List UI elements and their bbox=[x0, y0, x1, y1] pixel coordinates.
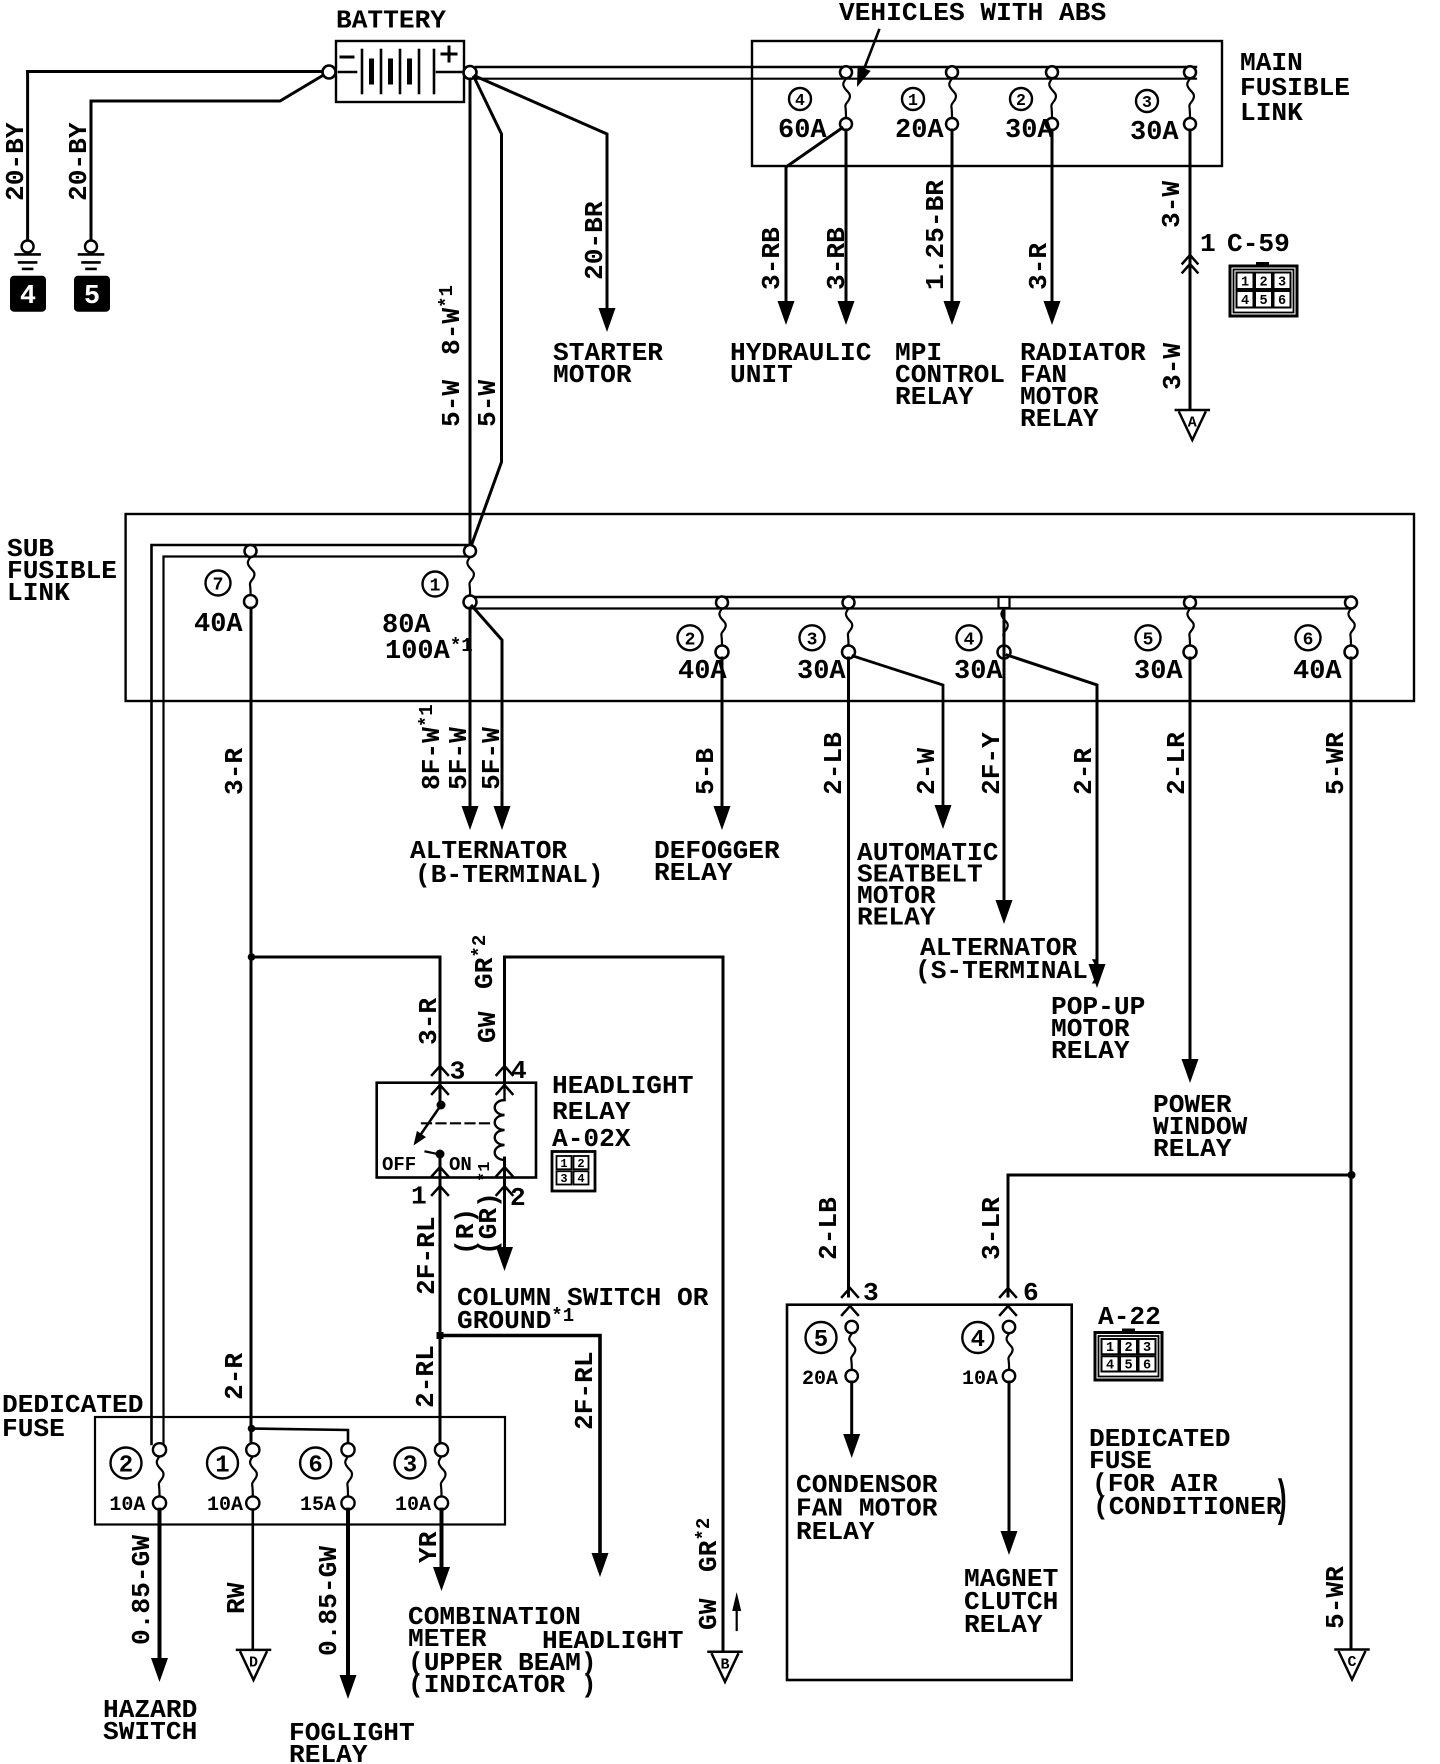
svg-text:6: 6 bbox=[1278, 294, 1286, 309]
svg-text:2: 2 bbox=[685, 630, 696, 650]
svg-text:RELAY: RELAY bbox=[654, 858, 733, 888]
svg-text:3: 3 bbox=[863, 1278, 879, 1308]
svg-text:40A: 40A bbox=[194, 610, 243, 640]
svg-text:3: 3 bbox=[403, 1453, 417, 1480]
svg-text:3: 3 bbox=[450, 1057, 466, 1087]
svg-text:(GR): (GR) bbox=[474, 1192, 504, 1255]
svg-text:2F-RL: 2F-RL bbox=[412, 1216, 442, 1295]
svg-text:2: 2 bbox=[1259, 275, 1267, 290]
svg-text:B: B bbox=[720, 1656, 729, 1673]
svg-text:5-W: 5-W bbox=[437, 380, 467, 427]
svg-text:4: 4 bbox=[1106, 1358, 1114, 1373]
svg-text:C-59: C-59 bbox=[1227, 229, 1290, 259]
svg-text:3-R: 3-R bbox=[220, 748, 250, 795]
svg-text:3-RB: 3-RB bbox=[757, 227, 787, 290]
svg-text:2: 2 bbox=[510, 1183, 526, 1213]
svg-text:10A: 10A bbox=[962, 1368, 998, 1391]
svg-text:10A: 10A bbox=[109, 1494, 145, 1517]
svg-text:4: 4 bbox=[20, 282, 36, 312]
svg-text:30A: 30A bbox=[954, 657, 1003, 687]
svg-text:20A: 20A bbox=[895, 116, 944, 146]
svg-text:RELAY: RELAY bbox=[1051, 1036, 1130, 1066]
svg-text:A-22: A-22 bbox=[1098, 1302, 1161, 1332]
svg-text:4: 4 bbox=[971, 1327, 985, 1354]
svg-text:5F-W: 5F-W bbox=[477, 727, 507, 790]
svg-text:RELAY: RELAY bbox=[1153, 1134, 1232, 1164]
svg-text:VEHICLES WITH ABS: VEHICLES WITH ABS bbox=[839, 0, 1106, 28]
svg-text:2: 2 bbox=[577, 1157, 584, 1171]
svg-text:RELAY: RELAY bbox=[552, 1097, 631, 1127]
svg-text:BATTERY: BATTERY bbox=[336, 6, 446, 36]
svg-text:RW: RW bbox=[222, 1582, 252, 1614]
svg-text:GW: GW bbox=[694, 1598, 724, 1630]
svg-text:4: 4 bbox=[1241, 294, 1249, 309]
svg-text:3: 3 bbox=[560, 1172, 567, 1186]
svg-text:6: 6 bbox=[1143, 1358, 1151, 1373]
svg-text:4: 4 bbox=[795, 91, 805, 110]
svg-text:2-LB: 2-LB bbox=[819, 732, 849, 795]
svg-text:4: 4 bbox=[577, 1172, 584, 1186]
svg-text:C: C bbox=[1347, 1654, 1356, 1671]
svg-text:1.25-BR: 1.25-BR bbox=[921, 180, 951, 290]
svg-text:10A: 10A bbox=[395, 1494, 431, 1517]
svg-text:A-02X: A-02X bbox=[552, 1124, 631, 1154]
svg-text:20-BR: 20-BR bbox=[580, 201, 610, 280]
svg-text:15A: 15A bbox=[300, 1494, 336, 1517]
svg-text:MOTOR: MOTOR bbox=[553, 360, 632, 390]
svg-text:2F-Y: 2F-Y bbox=[977, 732, 1007, 795]
svg-text:3-LR: 3-LR bbox=[977, 1197, 1007, 1260]
svg-text:1: 1 bbox=[1241, 275, 1249, 290]
svg-text:3-R: 3-R bbox=[1024, 243, 1054, 290]
svg-text:2-W: 2-W bbox=[912, 748, 942, 795]
svg-text:LINK: LINK bbox=[7, 578, 70, 608]
svg-text:5: 5 bbox=[1143, 630, 1154, 650]
svg-text:30A: 30A bbox=[1005, 116, 1054, 146]
svg-text:SWITCH: SWITCH bbox=[103, 1717, 197, 1747]
svg-text:1: 1 bbox=[215, 1453, 229, 1480]
svg-text:RELAY: RELAY bbox=[964, 1610, 1043, 1640]
svg-text:RELAY: RELAY bbox=[857, 903, 936, 933]
svg-text:0.85-GW: 0.85-GW bbox=[127, 1535, 157, 1645]
svg-text:2: 2 bbox=[1016, 91, 1026, 110]
svg-text:5-WR: 5-WR bbox=[1321, 732, 1351, 795]
svg-text:1: 1 bbox=[560, 1157, 567, 1171]
svg-text:3-W: 3-W bbox=[1158, 343, 1188, 390]
svg-text:20A: 20A bbox=[802, 1368, 838, 1391]
svg-text:40A: 40A bbox=[1293, 657, 1342, 687]
svg-text:6: 6 bbox=[1023, 1278, 1039, 1308]
svg-text:): ) bbox=[1274, 1473, 1290, 1529]
svg-text:2-RL: 2-RL bbox=[411, 1345, 441, 1408]
svg-text:OFF: OFF bbox=[382, 1154, 416, 1176]
svg-text:30A: 30A bbox=[1134, 657, 1183, 687]
svg-text:2F-RL: 2F-RL bbox=[570, 1351, 600, 1430]
svg-text:30A: 30A bbox=[1130, 118, 1179, 148]
svg-text:5: 5 bbox=[1124, 1358, 1132, 1373]
svg-text:20-BY: 20-BY bbox=[64, 122, 94, 201]
svg-text:7: 7 bbox=[213, 575, 224, 595]
svg-text:RELAY: RELAY bbox=[289, 1740, 368, 1764]
svg-text:5F-W: 5F-W bbox=[444, 727, 474, 790]
svg-text:GW: GW bbox=[473, 1011, 503, 1043]
svg-text:4: 4 bbox=[964, 630, 975, 650]
svg-text:A: A bbox=[1188, 415, 1197, 432]
svg-text:2: 2 bbox=[119, 1453, 133, 1480]
svg-text:(S-TERMINAL): (S-TERMINAL) bbox=[915, 956, 1104, 986]
svg-text:5: 5 bbox=[1259, 294, 1267, 309]
svg-text:6: 6 bbox=[1303, 630, 1314, 650]
svg-text:2-LR: 2-LR bbox=[1162, 732, 1192, 795]
svg-text:40A: 40A bbox=[678, 657, 727, 687]
svg-text:5-W: 5-W bbox=[473, 380, 503, 427]
svg-text:1: 1 bbox=[1200, 229, 1216, 259]
svg-text:(B-TERMINAL): (B-TERMINAL) bbox=[415, 860, 604, 890]
svg-text:RELAY: RELAY bbox=[895, 382, 974, 412]
svg-text:1: 1 bbox=[908, 91, 918, 110]
svg-text:RELAY: RELAY bbox=[1020, 404, 1099, 434]
svg-text:(CONDITIONER: (CONDITIONER bbox=[1093, 1492, 1282, 1522]
svg-text:2-R: 2-R bbox=[220, 1353, 250, 1400]
svg-text:3: 3 bbox=[1142, 93, 1152, 112]
svg-text:ON: ON bbox=[449, 1154, 472, 1176]
svg-text:1: 1 bbox=[1106, 1341, 1114, 1356]
svg-text:FUSE: FUSE bbox=[2, 1414, 65, 1444]
svg-text:30A: 30A bbox=[797, 657, 846, 687]
svg-text:1: 1 bbox=[411, 1182, 427, 1212]
svg-text:3-W: 3-W bbox=[1157, 181, 1187, 228]
svg-text:3-RB: 3-RB bbox=[822, 227, 852, 290]
svg-text:10A: 10A bbox=[207, 1494, 243, 1517]
svg-text:2: 2 bbox=[1124, 1341, 1132, 1356]
svg-text:5-B: 5-B bbox=[691, 748, 721, 795]
svg-text:0.85-GW: 0.85-GW bbox=[314, 1546, 344, 1656]
svg-text:3: 3 bbox=[807, 630, 818, 650]
svg-text:UNIT: UNIT bbox=[730, 360, 793, 390]
svg-text:LINK: LINK bbox=[1240, 98, 1303, 128]
svg-text:5: 5 bbox=[84, 282, 100, 312]
svg-text:3-R: 3-R bbox=[414, 998, 444, 1045]
svg-text:3: 3 bbox=[1278, 275, 1286, 290]
svg-text:2-R: 2-R bbox=[1069, 748, 1099, 795]
svg-text:D: D bbox=[249, 1654, 258, 1671]
svg-text:4: 4 bbox=[511, 1056, 527, 1086]
svg-text:6: 6 bbox=[308, 1453, 322, 1480]
svg-text:5-WR: 5-WR bbox=[1321, 1566, 1351, 1629]
svg-text:3: 3 bbox=[1143, 1341, 1151, 1356]
svg-text:20-BY: 20-BY bbox=[1, 122, 31, 201]
svg-text:2-LB: 2-LB bbox=[814, 1197, 844, 1260]
svg-text:(INDICATOR ): (INDICATOR ) bbox=[408, 1670, 597, 1700]
svg-text:*1: *1 bbox=[476, 1162, 495, 1182]
svg-text:5: 5 bbox=[814, 1327, 828, 1354]
svg-text:1: 1 bbox=[430, 576, 441, 596]
svg-text:RELAY: RELAY bbox=[796, 1517, 875, 1547]
svg-text:YR: YR bbox=[414, 1531, 444, 1563]
